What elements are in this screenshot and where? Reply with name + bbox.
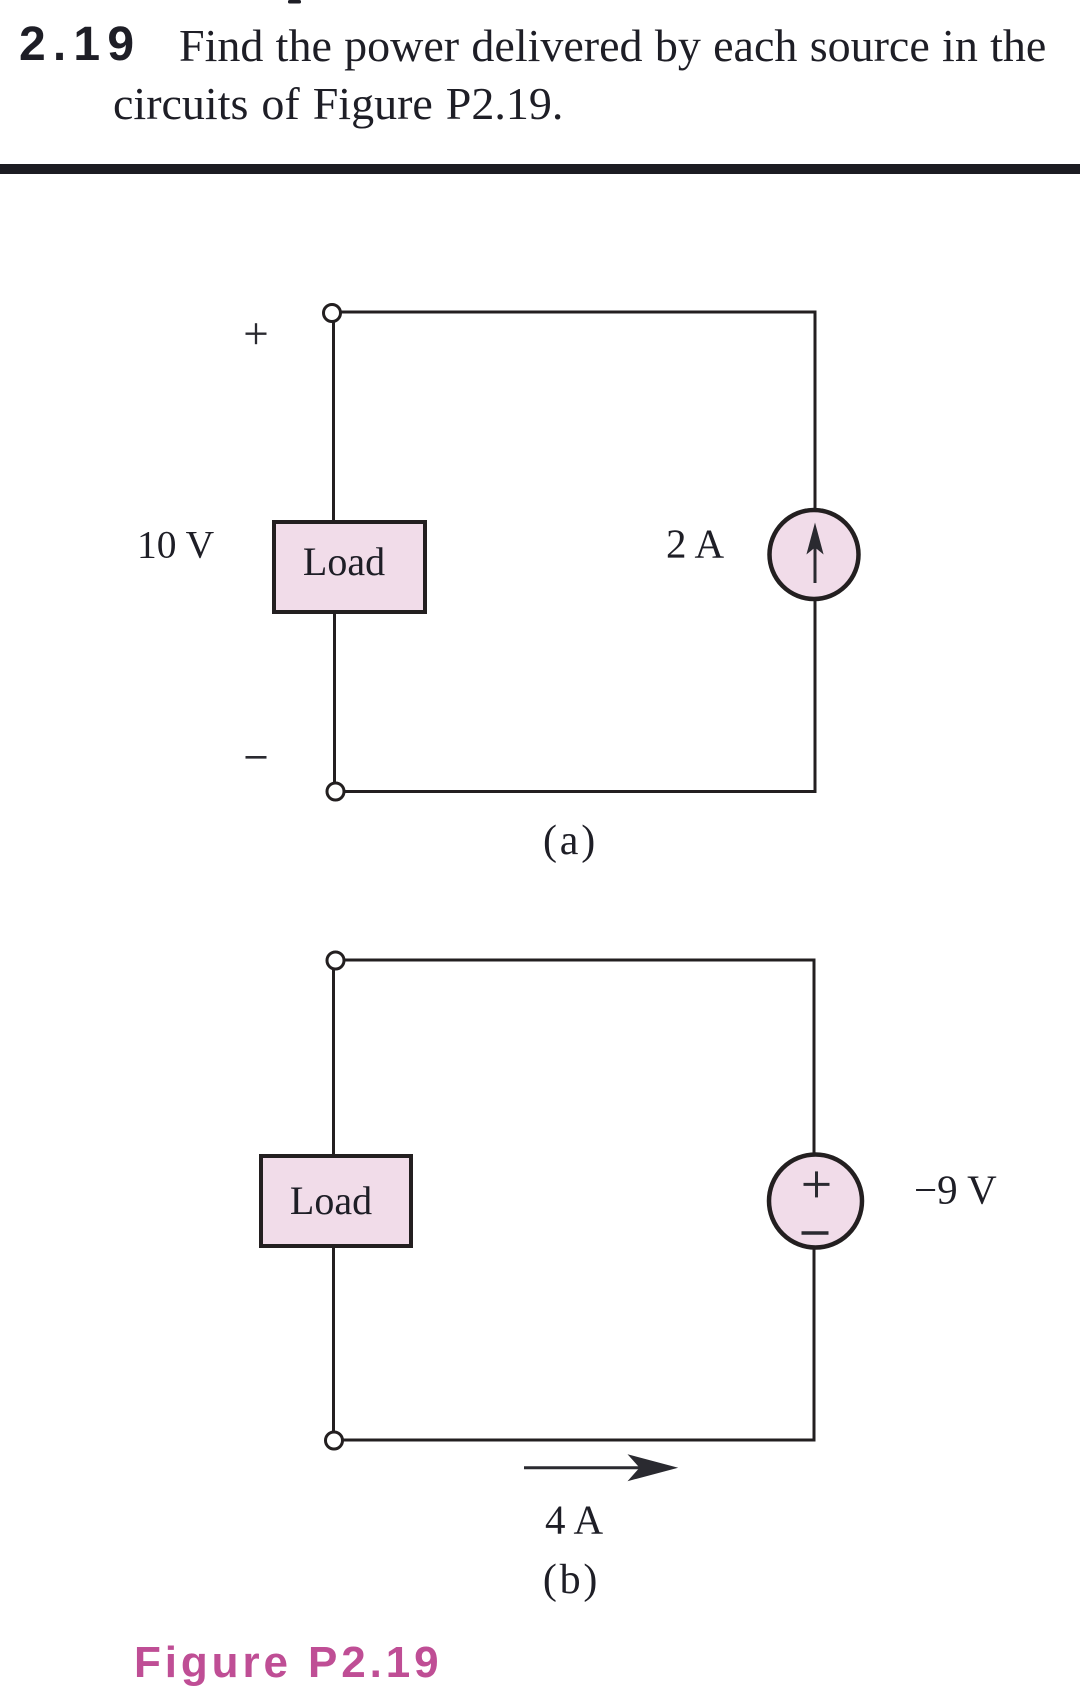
svg-text:2 A: 2 A: [666, 521, 724, 567]
terminal node: (b) top-left open circle: [327, 952, 344, 969]
svg-text:Load: Load: [303, 539, 385, 584]
problem number 2.19: [19, 18, 141, 71]
wire: (b) top horizontal: [343, 959, 816, 962]
svg-text:(b): (b): [543, 1557, 600, 1603]
figure caption: Figure P2.19: [134, 1638, 442, 1687]
terminal node: (a) bottom-left open circle: [327, 783, 344, 800]
svg-text:Find the power delivered by ea: Find the power delivered by each source …: [179, 20, 1046, 71]
label: plus sign of 10 V source polarity: [246, 323, 267, 344]
wire: (a) right upper vertical: [814, 311, 817, 513]
problem text line 2: [113, 78, 563, 129]
label: minus sign of 10 V source polarity: [246, 756, 267, 759]
wire: (a) right lower vertical: [814, 597, 817, 793]
label: 4 A: [545, 1497, 603, 1543]
wire: (a) top horizontal: [340, 311, 817, 314]
label: Load (b): [290, 1178, 372, 1223]
load box (b): [261, 1156, 411, 1246]
problem text line 1: [179, 20, 1046, 71]
svg-text:Figure P2.19: Figure P2.19: [134, 1638, 442, 1687]
wire: (a) left upper vertical: [332, 321, 335, 523]
label: 2 A: [666, 521, 724, 567]
wire: (a) bottom horizontal: [344, 790, 817, 793]
label: 10 V: [137, 523, 215, 567]
svg-text:−9 V: −9 V: [914, 1167, 997, 1213]
svg-text:circuits of Figure P2.19.: circuits of Figure P2.19.: [113, 78, 563, 129]
terminal node: (b) bottom-left open circle: [326, 1432, 343, 1449]
thick horizontal rule: [0, 164, 1080, 174]
caption (b): [543, 1557, 600, 1603]
caption (a): [543, 818, 598, 864]
wire: (b) right upper vertical: [813, 959, 816, 1158]
current source arrow (up): [806, 523, 823, 584]
wire: (b) left lower vertical: [332, 1245, 335, 1433]
svg-text:Load: Load: [290, 1178, 372, 1223]
wire: (a) left lower vertical: [333, 611, 336, 784]
stray glyph fragment at top edge: [288, 0, 301, 4]
svg-text:(a): (a): [543, 818, 598, 864]
load box (a): [274, 522, 425, 612]
current direction arrow 4 A: [524, 1454, 678, 1481]
svg-text:2.19: 2.19: [19, 18, 141, 71]
label: Load (a): [303, 539, 385, 584]
wire: (b) left upper vertical: [332, 969, 335, 1157]
svg-text:10 V: 10 V: [137, 523, 215, 567]
terminal node: (a) top-left open circle: [324, 305, 341, 322]
current source 2A: circle: [770, 510, 859, 599]
voltage source -9V: circle: [769, 1155, 862, 1248]
svg-text:4 A: 4 A: [545, 1497, 603, 1543]
voltage source minus terminal mark: [802, 1231, 829, 1234]
wire: (b) bottom horizontal: [343, 1439, 816, 1442]
label: -9 V: [914, 1167, 997, 1213]
voltage source plus terminal mark: [804, 1171, 830, 1197]
wire: (b) right lower vertical: [813, 1245, 816, 1442]
